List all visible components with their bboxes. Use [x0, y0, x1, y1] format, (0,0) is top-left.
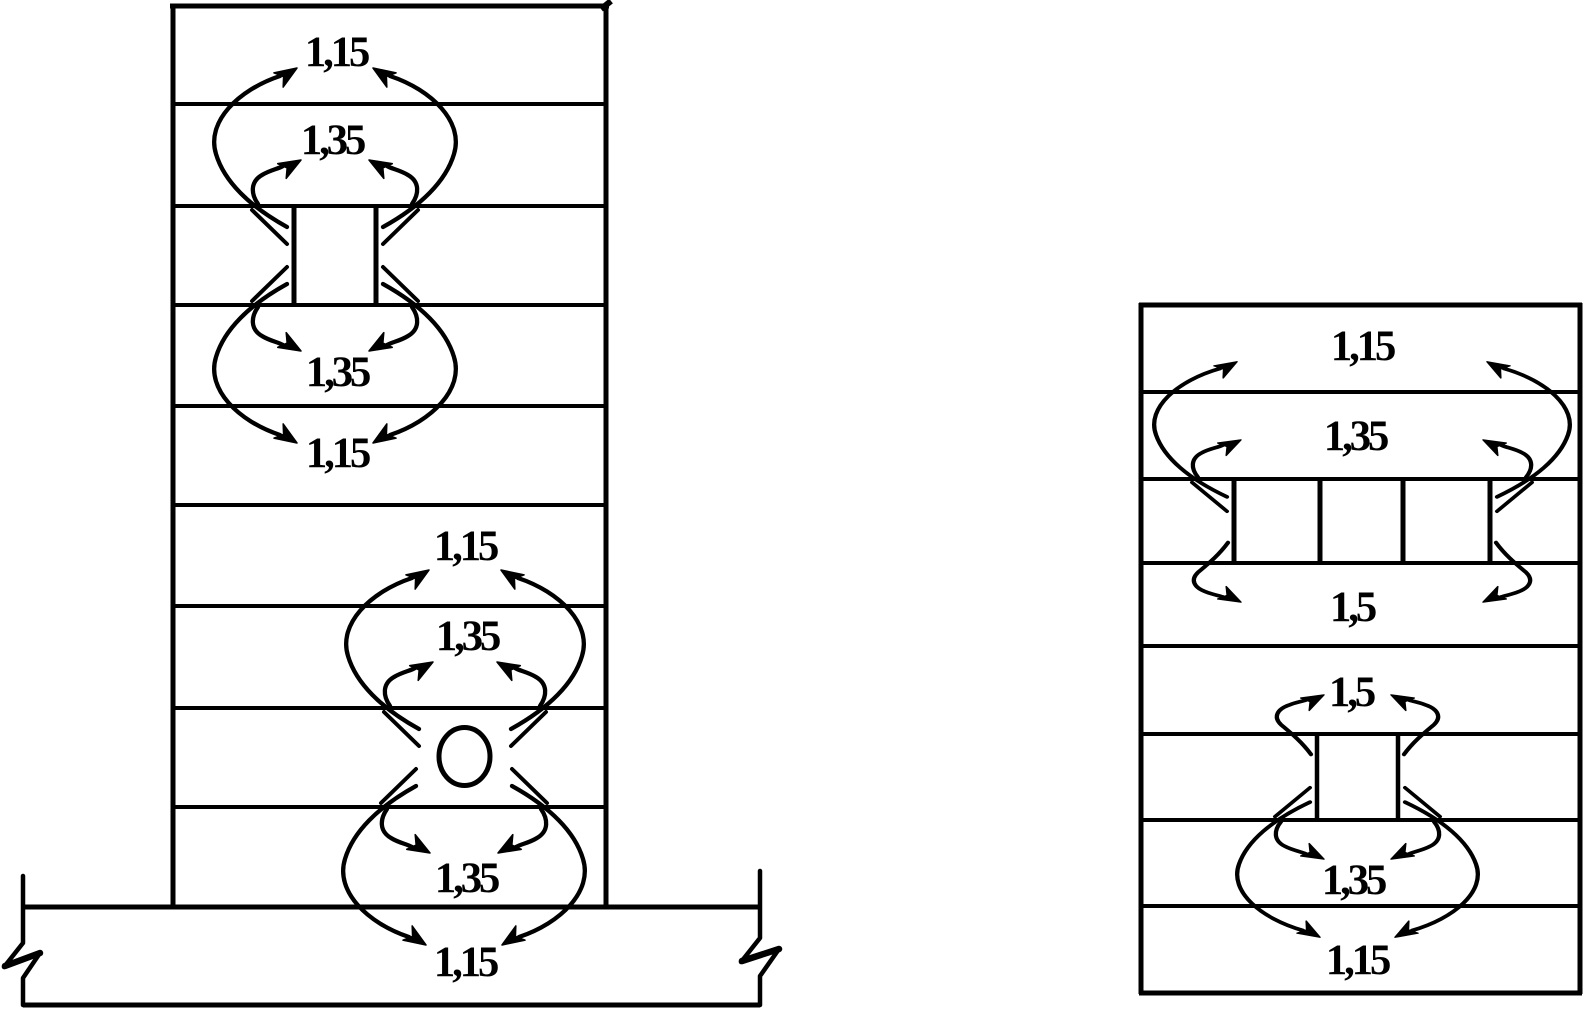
foundation top line	[23, 905, 761, 910]
svg-text:1,15: 1,15	[306, 430, 370, 477]
wall left edge	[171, 4, 176, 907]
circular opening left building	[439, 728, 490, 786]
svg-text:1,35: 1,35	[436, 613, 500, 660]
piers row right building	[1234, 479, 1490, 565]
svg-text:1,5: 1,5	[1330, 584, 1376, 631]
foundation right break edge	[741, 871, 779, 1005]
svg-text:1,15: 1,15	[305, 29, 369, 76]
arrows upper pier group	[214, 61, 305, 244]
svg-text:1,35: 1,35	[435, 855, 499, 902]
RIGHT BUILDING outline	[1139, 303, 1582, 994]
svg-text:1,15: 1,15	[434, 523, 498, 570]
FOUNDATION strip	[23, 907, 761, 1005]
lower pier right building	[1317, 734, 1398, 820]
wall right edge	[604, 4, 609, 907]
foundation bottom line	[23, 1003, 760, 1008]
arrows right building lower group	[1277, 689, 1328, 755]
roof line	[170, 4, 609, 9]
foundation left break edge	[4, 876, 40, 1005]
pier (upper opening) left building	[294, 206, 376, 305]
svg-text:1,15: 1,15	[434, 939, 498, 986]
svg-text:1,35: 1,35	[301, 117, 365, 164]
LEFT BUILDING wall outline	[170, 1, 611, 907]
svg-text:1,35: 1,35	[1324, 413, 1388, 460]
floor lines left building	[171, 104, 608, 807]
arrows right building top group	[1154, 356, 1245, 512]
svg-text:1,15: 1,15	[1331, 323, 1395, 370]
svg-text:1,35: 1,35	[1322, 857, 1386, 904]
svg-text:1,5: 1,5	[1329, 669, 1375, 716]
svg-text:1,35: 1,35	[306, 349, 370, 396]
arrows circle group	[346, 563, 437, 746]
svg-text:1,15: 1,15	[1326, 937, 1390, 984]
floor lines right building	[1141, 392, 1580, 906]
